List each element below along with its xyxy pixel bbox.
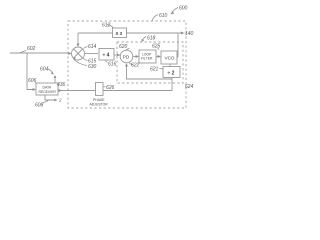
arrow out to 140 xyxy=(181,32,184,35)
multiplier box 612 (x3) xyxy=(113,28,127,38)
svg-text:614: 614 xyxy=(88,44,97,50)
phase detector PD 620 xyxy=(120,50,133,63)
wire: input branch down to data filter xyxy=(27,53,34,90)
wire: data box top stub xyxy=(54,76,56,84)
arrow into data filter xyxy=(33,88,36,91)
reference labels (italic digits) xyxy=(27,6,194,109)
svg-text:625: 625 xyxy=(152,44,161,50)
leader 615 xyxy=(83,58,88,61)
leader 626 xyxy=(104,86,106,89)
leader 620 xyxy=(126,49,130,51)
leader 621 xyxy=(160,68,164,71)
leader 618 xyxy=(142,37,146,42)
arrow into PD from bottom xyxy=(125,63,128,66)
leader 604 xyxy=(48,69,54,74)
wire: data box bottom output xyxy=(45,95,56,100)
svg-text:÷ 2: ÷ 2 xyxy=(168,71,175,77)
wire: data filter output bottom line xyxy=(58,90,95,92)
svg-text:436: 436 xyxy=(57,82,66,88)
leader 630 xyxy=(74,59,88,66)
svg-text:ADJUSTOR: ADJUSTOR xyxy=(90,103,109,107)
leader 612 xyxy=(107,25,114,29)
wire: feedback to PD xyxy=(127,64,173,79)
data filter box 604 xyxy=(36,83,58,95)
svg-text:÷ 4: ÷ 4 xyxy=(103,53,110,59)
wire: input line xyxy=(10,52,70,54)
mixer 614 xyxy=(72,47,85,60)
svg-text:612: 612 xyxy=(102,23,111,29)
phase adjustor box 626 xyxy=(96,83,104,96)
leader 602 xyxy=(19,51,27,54)
wire: mixer to divider box xyxy=(85,53,98,55)
leader 140 xyxy=(184,32,185,34)
outer dashed box 610 xyxy=(68,21,186,108)
arrowheads xyxy=(33,32,185,102)
svg-text:616: 616 xyxy=(108,62,117,68)
leader lines for labels xyxy=(19,8,185,103)
divider box 621 (div 2) xyxy=(163,67,180,78)
svg-text:PD: PD xyxy=(123,55,130,60)
arrow into mixer left xyxy=(68,52,71,55)
leader 625 xyxy=(157,48,159,50)
svg-text:610: 610 xyxy=(159,13,168,19)
arrow into PD from left xyxy=(117,54,120,57)
component text xyxy=(39,31,175,107)
svg-text:626: 626 xyxy=(106,85,115,91)
wire: phase adjust to right vertical xyxy=(103,90,172,92)
wire: divider box to PD xyxy=(114,54,120,56)
svg-text:2: 2 xyxy=(58,98,62,103)
svg-text:604: 604 xyxy=(40,67,49,73)
svg-text:630: 630 xyxy=(88,64,97,70)
wire: VCO to vertical junction xyxy=(177,56,178,58)
svg-text:VCO: VCO xyxy=(165,56,175,61)
wire: PD to loop filter xyxy=(133,56,138,58)
inner dashed box 618 (PLL block) xyxy=(117,42,183,83)
arrow into VCO xyxy=(158,55,161,58)
wire: VCO down to div2 xyxy=(169,64,171,67)
wire: right vertical to VCO output xyxy=(177,33,179,57)
wire: mixer top vertical xyxy=(77,33,79,45)
wire: div2 bottom vertical xyxy=(171,78,173,91)
svg-text:624: 624 xyxy=(185,84,194,90)
leader 616 xyxy=(106,61,108,63)
arrow into loop filter xyxy=(136,55,139,58)
svg-text:622: 622 xyxy=(131,63,140,69)
leader 622 xyxy=(129,63,133,65)
svg-text:606: 606 xyxy=(28,78,37,84)
divider box 616 xyxy=(99,49,114,61)
svg-text:600: 600 xyxy=(179,6,188,12)
wire: output to 140 xyxy=(178,32,183,34)
svg-text:621: 621 xyxy=(150,67,159,73)
wire: loop filter to VCO xyxy=(156,56,160,58)
svg-text:PHASE: PHASE xyxy=(93,98,105,102)
svg-text:RECEIVER: RECEIVER xyxy=(39,90,57,94)
svg-text:X 3: X 3 xyxy=(116,31,123,36)
arrow on data box top stub xyxy=(54,75,57,78)
svg-text:FILTER: FILTER xyxy=(141,57,153,61)
loop filter box 625 xyxy=(139,50,156,63)
svg-text:602: 602 xyxy=(27,46,36,52)
svg-text:618: 618 xyxy=(147,36,156,42)
svg-text:620: 620 xyxy=(119,44,128,50)
leader 606 xyxy=(35,83,37,84)
wire: top horizontal to x3 box xyxy=(78,32,113,34)
leader 614 xyxy=(84,47,88,49)
svg-text:608: 608 xyxy=(35,103,44,109)
arrow on data box bottom output xyxy=(54,99,57,102)
leader 600 xyxy=(171,8,178,15)
svg-text:DATA: DATA xyxy=(43,86,52,90)
arrow into mixer top xyxy=(77,44,80,47)
VCO box xyxy=(161,51,177,64)
leader 610 xyxy=(152,15,158,21)
svg-text:140: 140 xyxy=(185,31,194,37)
wire: x3 box to right corner xyxy=(127,32,179,34)
arrow on bottom wire after data filter xyxy=(59,89,62,92)
leader 608 xyxy=(43,100,49,103)
